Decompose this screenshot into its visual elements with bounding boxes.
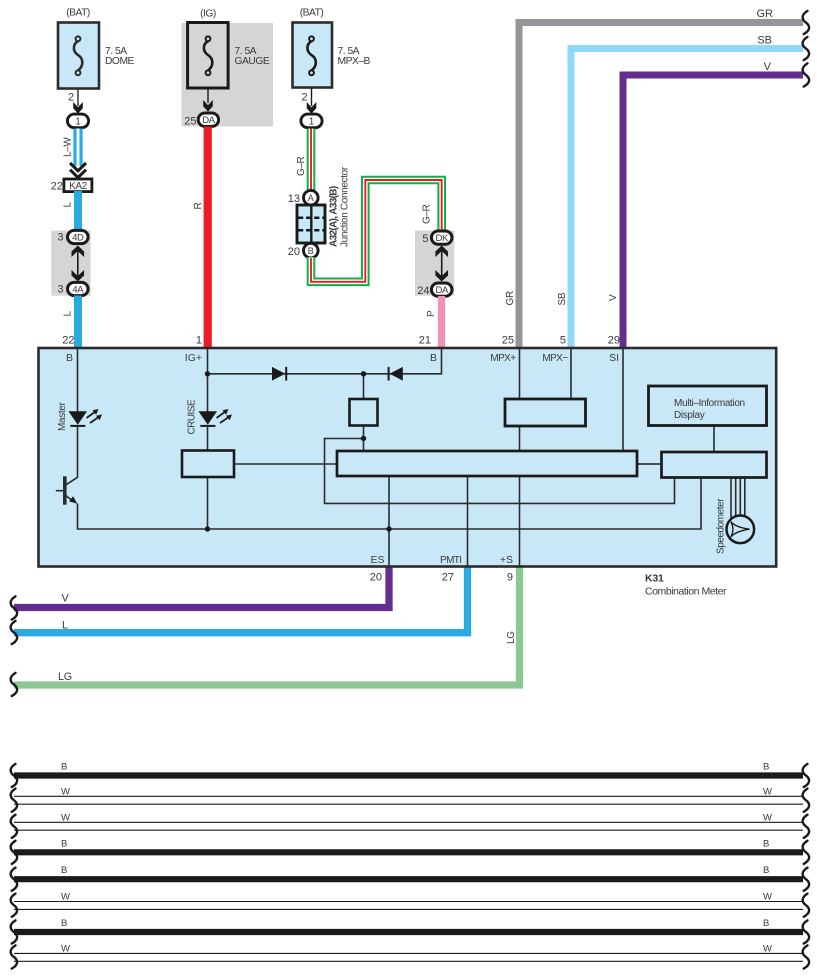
- svg-text:(BAT): (BAT): [66, 8, 90, 19]
- svg-text:W: W: [61, 812, 70, 823]
- svg-text:25: 25: [184, 116, 196, 128]
- svg-text:V: V: [764, 61, 772, 73]
- svg-text:SB: SB: [757, 35, 772, 47]
- svg-text:LG: LG: [58, 671, 72, 683]
- svg-text:W: W: [61, 892, 70, 903]
- svg-text:SB: SB: [557, 292, 568, 305]
- svg-text:DK: DK: [435, 233, 448, 244]
- svg-text:4D: 4D: [72, 232, 84, 243]
- svg-text:L–W: L–W: [63, 137, 74, 157]
- svg-text:L: L: [63, 311, 74, 317]
- svg-text:B: B: [763, 918, 769, 929]
- svg-text:W: W: [763, 786, 772, 797]
- svg-text:GR: GR: [505, 291, 516, 305]
- svg-text:B: B: [66, 352, 73, 364]
- svg-text:1: 1: [196, 335, 202, 347]
- svg-text:25: 25: [502, 335, 514, 347]
- svg-text:G–R: G–R: [296, 156, 307, 176]
- svg-text:MPX−: MPX−: [542, 353, 568, 364]
- svg-text:L: L: [62, 619, 68, 631]
- svg-text:20: 20: [288, 246, 300, 258]
- svg-text:+S: +S: [500, 554, 513, 566]
- svg-text:1: 1: [309, 117, 315, 128]
- svg-text:B: B: [61, 762, 67, 773]
- svg-text:2: 2: [68, 92, 74, 104]
- svg-text:R: R: [193, 202, 204, 209]
- svg-text:W: W: [763, 943, 772, 954]
- svg-text:LG: LG: [506, 631, 517, 644]
- svg-text:Display: Display: [674, 410, 705, 421]
- svg-text:22: 22: [62, 335, 74, 347]
- svg-text:B: B: [61, 865, 67, 876]
- svg-text:B: B: [763, 865, 769, 876]
- svg-text:DA: DA: [202, 115, 215, 126]
- svg-text:3: 3: [57, 231, 63, 243]
- svg-text:MPX–B: MPX–B: [338, 56, 371, 67]
- svg-text:W: W: [763, 892, 772, 903]
- svg-text:W: W: [61, 943, 70, 954]
- svg-text:2: 2: [301, 92, 307, 104]
- svg-text:(IG): (IG): [200, 9, 216, 20]
- svg-text:A32(A), A33(B): A32(A), A33(B): [329, 186, 340, 247]
- svg-text:B: B: [430, 352, 437, 364]
- svg-text:ES: ES: [370, 554, 384, 566]
- svg-text:W: W: [61, 786, 70, 797]
- svg-text:5: 5: [560, 335, 566, 347]
- svg-text:SI: SI: [609, 352, 619, 364]
- svg-text:29: 29: [608, 335, 620, 347]
- svg-text:21: 21: [419, 335, 431, 347]
- svg-text:B: B: [61, 838, 67, 849]
- svg-text:B: B: [308, 246, 314, 256]
- svg-text:24: 24: [417, 285, 429, 297]
- svg-text:13: 13: [288, 193, 300, 205]
- svg-text:Junction Connector: Junction Connector: [340, 166, 351, 247]
- svg-text:DA: DA: [435, 285, 448, 296]
- svg-text:V: V: [608, 294, 619, 301]
- svg-text:B: B: [61, 918, 67, 929]
- svg-text:9: 9: [507, 572, 513, 584]
- svg-text:MPX+: MPX+: [490, 353, 516, 364]
- svg-text:V: V: [62, 592, 70, 604]
- svg-text:K31: K31: [645, 573, 664, 585]
- svg-text:1: 1: [75, 117, 81, 128]
- svg-text:Speedometer: Speedometer: [716, 498, 727, 554]
- svg-text:3: 3: [57, 283, 63, 295]
- svg-text:G–R: G–R: [422, 204, 433, 224]
- svg-text:4A: 4A: [72, 284, 84, 295]
- svg-text:PMTI: PMTI: [440, 555, 462, 566]
- svg-text:L: L: [63, 202, 74, 208]
- svg-text:5: 5: [422, 233, 428, 245]
- svg-text:GAUGE: GAUGE: [235, 56, 270, 67]
- svg-text:(BAT): (BAT): [300, 8, 324, 19]
- svg-text:Combination Meter: Combination Meter: [645, 586, 727, 598]
- svg-text:CRUISE: CRUISE: [187, 399, 198, 434]
- svg-text:Master: Master: [57, 402, 68, 431]
- svg-text:W: W: [763, 812, 772, 823]
- svg-text:B: B: [763, 762, 769, 773]
- svg-text:KA2: KA2: [69, 181, 88, 192]
- svg-text:IG+: IG+: [185, 352, 202, 364]
- svg-text:B: B: [763, 838, 769, 849]
- svg-text:DOME: DOME: [105, 56, 135, 67]
- svg-text:20: 20: [370, 572, 382, 584]
- svg-text:Multi–Information: Multi–Information: [674, 398, 745, 409]
- svg-text:GR: GR: [757, 8, 774, 20]
- svg-text:22: 22: [51, 180, 63, 192]
- svg-text:27: 27: [442, 572, 454, 584]
- svg-text:A: A: [308, 193, 314, 203]
- svg-text:P: P: [426, 310, 437, 317]
